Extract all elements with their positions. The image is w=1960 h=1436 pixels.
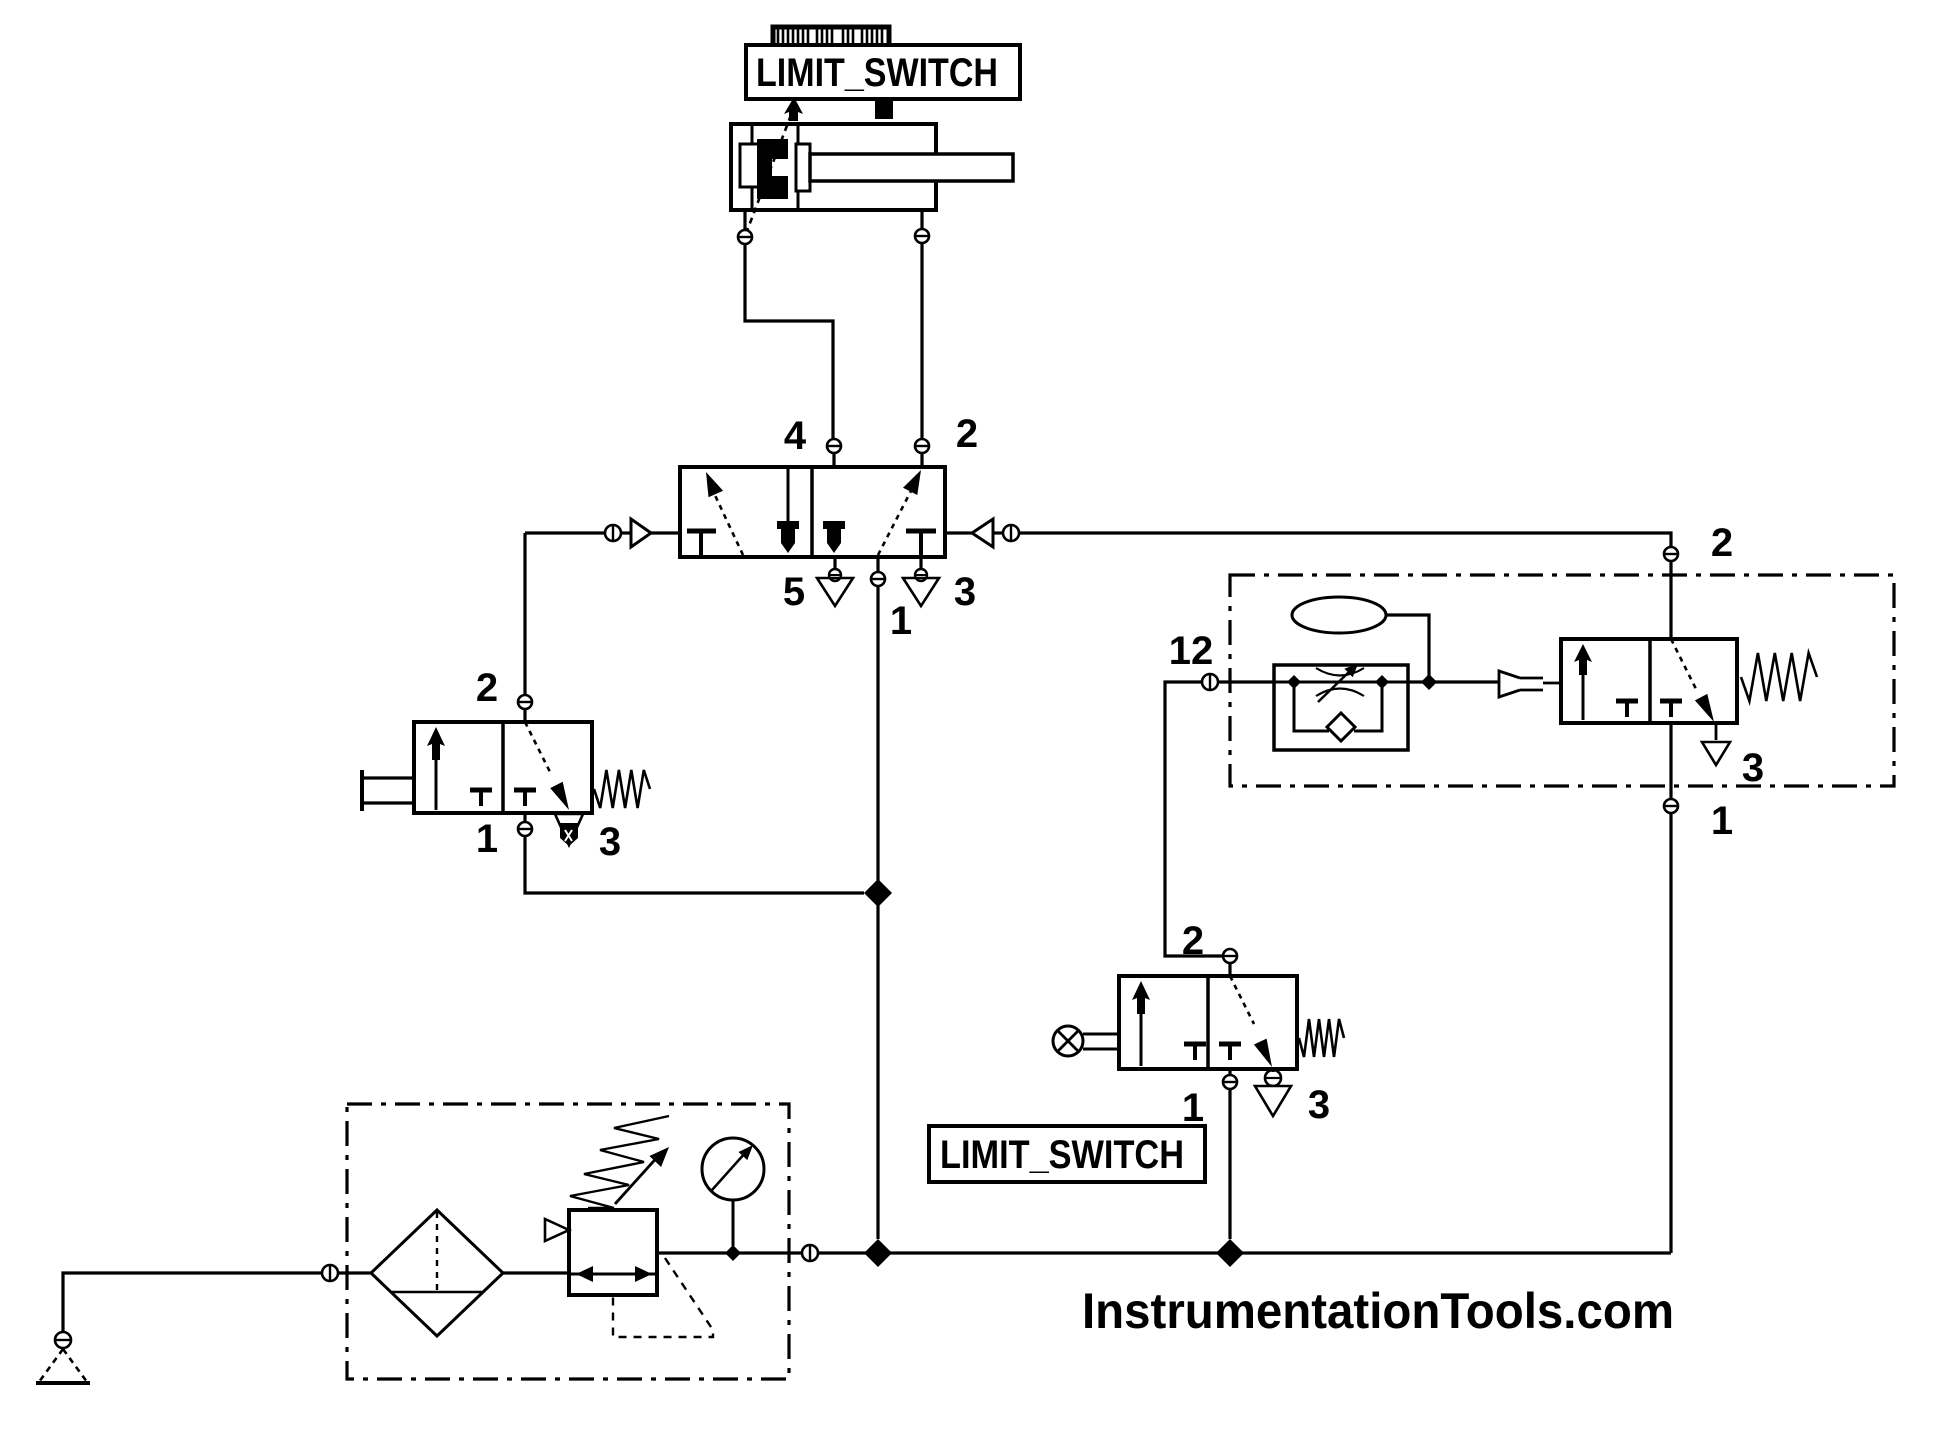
regulator spring: [570, 1116, 669, 1208]
main supply bus: [819, 1251, 1671, 1254]
marker square on label box: [875, 99, 893, 119]
svg-text:2: 2: [956, 412, 978, 456]
V1 left pilot: [525, 519, 680, 547]
limit switch linkage (dashed): [747, 115, 791, 231]
roller valve V4 port 2 connection: [1222, 949, 1238, 976]
V3 right position T: [1660, 701, 1682, 717]
wire V4 port 1 to supply bus: [1228, 1090, 1231, 1239]
V4 return spring: [1299, 1019, 1344, 1057]
wire flow control to pilot connector: [1408, 680, 1499, 683]
V4 left position T: [1184, 1044, 1206, 1060]
V2 exhaust port 3: [555, 814, 583, 846]
junction reservoir branch: [1421, 674, 1437, 690]
3/2 roller valve V4 body: [1119, 976, 1297, 1069]
svg-text:LIMIT_SWITCH: LIMIT_SWITCH: [940, 1133, 1184, 1177]
cylinder rod support: [796, 124, 810, 210]
FRL dashed enclosure: [347, 1104, 789, 1379]
pilot connector: [1499, 671, 1561, 697]
5/2 valve V1 body: [680, 467, 945, 557]
valve V1 port 2 connection: [914, 439, 930, 467]
V1 port labels: [783, 412, 978, 643]
regulator output wire: [657, 1251, 801, 1254]
regulator adjustment arrow: [615, 1147, 669, 1204]
supply wire from air source: [63, 1273, 321, 1331]
svg-text:12: 12: [1169, 629, 1214, 673]
V4 diagonal arrow 2 to 3: [1230, 976, 1272, 1067]
valve V1 port 4 connection: [826, 439, 842, 522]
regulator vent triangle: [545, 1219, 569, 1241]
junction at gauge: [725, 1245, 741, 1261]
wire V3 port 1 down to supply bus: [1669, 814, 1672, 1253]
V1 exhaust port 5: [817, 557, 853, 606]
V3 flow arrow (left square): [1574, 644, 1592, 720]
FRL inlet port: [322, 1265, 371, 1281]
center supply riser wire: [876, 587, 879, 1239]
V4 roller actuator: [1053, 1026, 1119, 1056]
V2 return spring: [594, 770, 650, 808]
svg-text:3: 3: [599, 820, 621, 864]
svg-text:1: 1: [1182, 1086, 1204, 1130]
flow control valve (throttle + check): [1274, 664, 1408, 750]
wire cylinder left port to valve port 4: [745, 245, 833, 438]
V1 right pilot: [945, 519, 1019, 547]
timer 3/2 valve V3 body: [1561, 639, 1737, 723]
V2 diagonal arrow 2 to 3: [525, 722, 569, 810]
cylinder right port: [914, 210, 930, 243]
air source (compressed air supply): [36, 1349, 90, 1383]
V1 blocked plug right: [823, 521, 845, 553]
V1 port 1 connection: [870, 557, 886, 586]
svg-text:LIMIT_SWITCH: LIMIT_SWITCH: [756, 51, 998, 95]
V4 exhaust port 3: [1255, 1069, 1291, 1116]
pressure regulator: [569, 1210, 657, 1295]
svg-text:3: 3: [954, 570, 976, 614]
V2 port 1 connection: [517, 813, 533, 836]
junction bus / roller valve branch: [1216, 1239, 1244, 1267]
ruler scale above limit switch: [771, 27, 894, 56]
cylinder A body: [731, 124, 936, 210]
V3 return spring: [1741, 653, 1817, 701]
wire V1 left pilot down to valve V2 port 2: [523, 533, 526, 694]
V2 port labels: [476, 666, 621, 864]
svg-text:2: 2: [1182, 919, 1204, 963]
wire port 12 to flow control: [1219, 680, 1274, 683]
pointer arrow to label box: [784, 97, 803, 121]
air reservoir: [1292, 597, 1386, 633]
wire V1 right pilot to timer valve port 2: [1020, 533, 1671, 546]
regulator dashed pilot feedback: [613, 1258, 713, 1337]
svg-text:2: 2: [476, 666, 498, 710]
V3 port 2 connection: [1663, 547, 1679, 639]
junction at V2 branch: [864, 879, 892, 907]
V2 port 2 connection: [517, 695, 533, 722]
V1 right position T: [906, 531, 936, 556]
V4 right position T: [1219, 1044, 1241, 1060]
V3 port labels: [1711, 521, 1764, 843]
V2 left position T: [470, 790, 492, 806]
V1 blocked plug left: [777, 521, 799, 553]
V1 left position T: [687, 531, 716, 556]
V1 exhaust port 3: [903, 557, 939, 606]
V4 port labels: [1182, 919, 1330, 1130]
timer unit dashed enclosure: [1230, 575, 1894, 786]
V3 left position T: [1616, 701, 1638, 717]
svg-text:2: 2: [1711, 521, 1733, 565]
V1 left position arrow: [706, 472, 743, 555]
FRL outlet port: [802, 1245, 818, 1261]
svg-text:1: 1: [890, 599, 912, 643]
V2 push button: [362, 770, 414, 811]
V3 diagonal arrow 2 to 3: [1671, 639, 1714, 722]
air source port: [55, 1332, 71, 1348]
label box LIMIT_SWITCH (top): [746, 45, 1020, 99]
svg-text:1: 1: [1711, 799, 1733, 843]
cylinder piston rod: [810, 154, 1013, 181]
svg-text:4: 4: [784, 414, 807, 458]
wire filter to regulator: [503, 1271, 569, 1274]
V2 flow arrow (left square): [427, 727, 445, 810]
svg-text:5: 5: [783, 570, 805, 614]
V2 right position T: [514, 790, 536, 806]
cylinder left port: [737, 210, 753, 244]
V4 flow arrow (left square): [1132, 981, 1150, 1066]
junction bus / center riser: [864, 1239, 892, 1267]
V1 right position arrow 1 to 2: [878, 470, 921, 555]
wire V2 port 1 to center line: [525, 837, 864, 893]
air filter: [371, 1210, 503, 1336]
V3 port 1 connection: [1663, 723, 1679, 813]
wire port 12 down to roller valve port 2: [1165, 682, 1222, 956]
pressure gauge: [702, 1138, 764, 1246]
V3 exhaust port 3: [1702, 723, 1730, 765]
wire reservoir to pilot line: [1386, 615, 1429, 676]
svg-text:1: 1: [476, 817, 498, 861]
svg-text:3: 3: [1308, 1083, 1330, 1127]
3/2 push-button valve V2 body: [414, 722, 592, 813]
label box LIMIT_SWITCH (bottom): [929, 1126, 1205, 1182]
svg-text:InstrumentationTools.com: InstrumentationTools.com: [1082, 1283, 1674, 1339]
V4 port 1 connection: [1222, 1069, 1238, 1089]
cylinder piston (black): [757, 139, 791, 199]
port 12 connection: [1202, 674, 1218, 690]
svg-text:3: 3: [1742, 746, 1764, 790]
wire cylinder right port to valve port 2: [920, 244, 923, 438]
